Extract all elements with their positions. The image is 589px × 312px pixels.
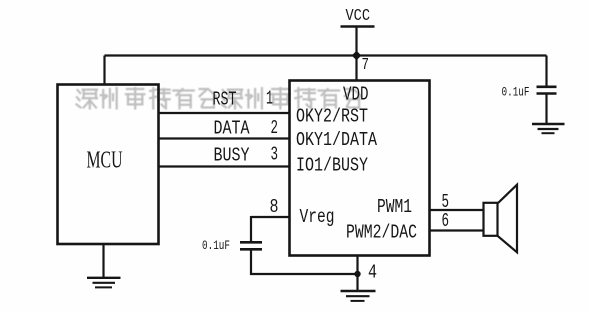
svg-text:Vreg: Vreg	[300, 206, 335, 228]
svg-text:DATA: DATA	[214, 117, 250, 139]
svg-text:BUSY: BUSY	[214, 144, 250, 166]
svg-text:2: 2	[271, 117, 279, 139]
svg-text:RST: RST	[213, 89, 237, 111]
svg-text:7: 7	[362, 56, 370, 75]
svg-text:8: 8	[270, 196, 279, 218]
svg-text:0.1uF: 0.1uF	[502, 86, 530, 100]
svg-text:OKY1/DATA: OKY1/DATA	[296, 129, 377, 151]
svg-text:PWM1: PWM1	[377, 196, 412, 218]
svg-text:VDD: VDD	[343, 84, 369, 106]
svg-text:3: 3	[271, 144, 279, 166]
svg-text:PWM2/DAC: PWM2/DAC	[346, 222, 417, 244]
svg-text:MCU: MCU	[87, 148, 123, 174]
svg-text:1: 1	[266, 87, 273, 109]
svg-text:0.1uF: 0.1uF	[202, 239, 230, 253]
svg-text:OKY2/RST: OKY2/RST	[296, 106, 368, 128]
svg-text:IO1/BUSY: IO1/BUSY	[296, 155, 368, 177]
svg-text:4: 4	[368, 262, 377, 284]
svg-text:VCC: VCC	[346, 6, 371, 25]
svg-text:6: 6	[442, 210, 450, 232]
